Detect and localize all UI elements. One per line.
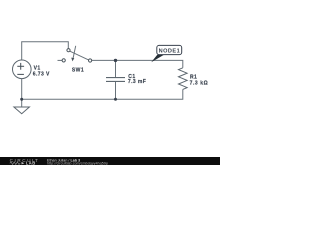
svg-text:7.3 kΩ: 7.3 kΩ	[190, 81, 209, 87]
svg-text:6.73 V: 6.73 V	[33, 72, 50, 78]
svg-text:http://circuitlab.com/cmbdqyy4: http://circuitlab.com/cmbdqyy4hq59p	[47, 162, 108, 165]
svg-text:NODE1: NODE1	[159, 49, 181, 55]
svg-text:SW1: SW1	[72, 68, 84, 74]
svg-text:LAB: LAB	[26, 161, 36, 165]
svg-text:7.3 mF: 7.3 mF	[128, 79, 146, 85]
